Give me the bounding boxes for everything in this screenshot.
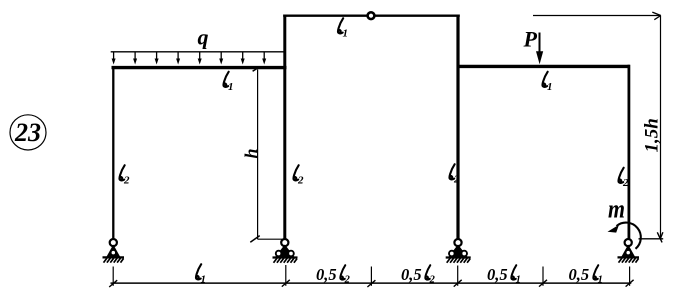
hinge at top beam: [368, 12, 375, 19]
problem number circle 23: [10, 115, 46, 150]
wire left beam B1: [112, 66, 287, 69]
svg-text:1: 1: [228, 81, 234, 93]
bottom dimension main line: [111, 282, 632, 284]
svg-text:1: 1: [201, 274, 207, 286]
label l1 top beam: [338, 18, 348, 39]
support S4 pin circle: [625, 239, 632, 246]
svg-text:m: m: [608, 195, 625, 224]
svg-text:23: 23: [14, 118, 41, 147]
bottom dimension tick at x=113: [109, 267, 117, 288]
point load P arrow: [536, 33, 543, 65]
support S2 roller circles: [276, 251, 294, 257]
support S3 base and hatching: [446, 258, 471, 263]
support S1 base and hatching: [103, 257, 125, 262]
svg-text:0,5: 0,5: [487, 265, 508, 284]
support S3 triangle: [449, 245, 468, 257]
bottom dimension tick at x=287: [282, 265, 290, 287]
support S3 pin circle: [454, 239, 461, 246]
wire column C3: [456, 15, 459, 241]
bottom dimension tick at x=539: [539, 267, 547, 287]
label l1 left beam: [223, 72, 233, 93]
bottom dimension tick at x=371: [367, 267, 375, 288]
support S2 pin circle: [281, 239, 288, 246]
support S4 triangle: [622, 245, 635, 257]
svg-text:1: 1: [598, 275, 603, 286]
wire right column C4: [628, 65, 631, 240]
support S2 triangle: [276, 245, 295, 257]
support S4 base and hatching: [618, 257, 640, 262]
dimension 1,5h top line: [533, 15, 660, 17]
svg-text:P: P: [523, 27, 538, 52]
svg-text:2: 2: [429, 275, 435, 286]
label l2 column C3: [449, 164, 460, 185]
support S2 base and hatching: [273, 258, 298, 263]
dimension 1,5h bottom arrowhead: [657, 232, 663, 242]
moment m arc: [617, 223, 641, 249]
dimension 1,5h bottom tick line: [639, 238, 664, 240]
svg-text:2: 2: [297, 175, 304, 187]
svg-text:2: 2: [344, 275, 350, 286]
bottom dimension tick at x=455: [454, 266, 462, 287]
svg-text:2: 2: [123, 175, 130, 187]
span label 0,5l2 second: [401, 265, 435, 286]
wire middle column C2: [283, 15, 286, 241]
dimension h top arrow: [253, 68, 259, 72]
dimension h extension to support: [258, 238, 285, 240]
label l1 right beam: [542, 72, 552, 93]
dimension 1,5h top arrowhead: [652, 12, 661, 20]
dimension h bottom arrow: [250, 236, 259, 243]
label l2 column C2: [293, 165, 304, 186]
support S1 pin circle: [110, 239, 117, 246]
svg-text:1: 1: [547, 81, 553, 93]
distributed load arrowheads: [112, 59, 267, 65]
span label 0,5l1 first: [487, 265, 521, 286]
span label 0,5l1 second: [569, 265, 603, 286]
svg-text:2: 2: [622, 177, 629, 189]
support S3 roller circles: [449, 251, 467, 257]
svg-text:0,5: 0,5: [316, 265, 337, 284]
svg-text:1,5h: 1,5h: [642, 118, 663, 152]
bottom dimension tick at x=628: [626, 267, 634, 287]
distributed load q line: [111, 51, 284, 53]
support S1 triangle: [107, 245, 120, 257]
support S4 roller circle: [626, 250, 631, 255]
svg-text:2: 2: [453, 174, 460, 186]
svg-text:q: q: [198, 25, 209, 50]
support S1 roller circle: [111, 250, 116, 255]
svg-text:0,5: 0,5: [569, 265, 590, 284]
moment m arrowhead: [608, 225, 620, 233]
span label l1: [196, 264, 206, 285]
wire top beam B2: [283, 14, 460, 16]
distributed load arrows: [114, 52, 265, 60]
svg-text:1: 1: [516, 275, 521, 286]
label l2 column C4: [618, 168, 629, 189]
svg-text:0,5: 0,5: [401, 265, 422, 284]
svg-text:h: h: [241, 148, 261, 158]
wire left column C1: [112, 66, 114, 240]
span label 0,5l2 first: [316, 265, 350, 286]
svg-text:1: 1: [343, 28, 349, 40]
dimension 1,5h vertical line: [660, 16, 662, 239]
label l2 column C1: [119, 165, 130, 186]
wire right beam B3: [457, 65, 630, 68]
dimension h vertical line: [257, 70, 259, 240]
